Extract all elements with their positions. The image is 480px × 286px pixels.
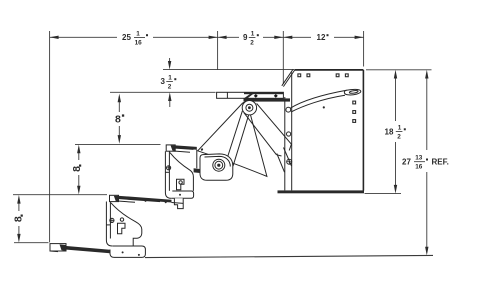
svg-text:25: 25 [122, 33, 131, 42]
bolt on housing flange upper [287, 132, 291, 136]
housing panel outline [278, 69, 365, 193]
svg-text:1: 1 [168, 74, 172, 81]
bracket3 S-curve [111, 203, 142, 246]
bracket2 S-curve [170, 153, 194, 191]
svg-text:8: 8 [115, 114, 121, 126]
right mid extension line (housing bottom) [365, 193, 402, 195]
text 8 #1 [115, 114, 124, 126]
dim 8 #2 stems [78, 151, 80, 160]
washer pivot [213, 159, 225, 171]
svg-text:1: 1 [398, 124, 402, 131]
arrow 25 left [50, 36, 59, 39]
dimension 12 line [283, 36, 311, 38]
housing left flange [285, 73, 292, 191]
small dot on housing [323, 106, 325, 108]
text 8 #2 (rotated) [71, 165, 83, 172]
svg-text:12: 12 [317, 33, 326, 42]
dimension 25 1/16 line [50, 36, 117, 38]
arrows at x=217.6 [209, 36, 218, 39]
svg-text:9: 9 [243, 33, 248, 42]
dim 18 1/2 line [395, 76, 397, 121]
dimension texts [13, 30, 449, 222]
boss plate on tread2 [200, 154, 233, 180]
tread 2 [166, 145, 203, 173]
extension line B (x=283.3) [282, 31, 284, 84]
scissor link at housing lower [277, 148, 292, 173]
svg-text:2: 2 [250, 39, 254, 46]
bolt on bracket2 [167, 166, 171, 170]
bracket step3->step4 [106, 202, 145, 258]
curved crank arm inside housing [286, 89, 361, 112]
tread3 right-end wrap [174, 198, 183, 208]
extension line left (front of bottom step) [49, 31, 51, 242]
tread 3 [110, 195, 184, 203]
right top extension line [366, 69, 432, 71]
scissor upper arm (to housing) [244, 103, 292, 156]
svg-text:REF.: REF. [432, 158, 449, 167]
bracket3 foot [110, 246, 145, 257]
dim 3 1/2 arrow stems [169, 58, 171, 63]
arrows 8 #2 [77, 145, 80, 154]
svg-text:8: 8 [71, 166, 83, 172]
dim 8 #3 stems [18, 201, 20, 211]
bolt on housing flange lower [287, 159, 292, 164]
text 12 [317, 33, 329, 42]
scissor lower arm (to washer pivot) [225, 111, 249, 166]
arrows 18 1/2 [394, 70, 397, 79]
dimension 9 1/2 line [218, 36, 239, 38]
clip on bracket2 [177, 179, 185, 190]
arrows at x=283.3 [274, 36, 283, 39]
clip on bracket3 [118, 223, 126, 234]
text 8 #3 (rotated) [13, 215, 25, 223]
svg-text:3: 3 [161, 77, 166, 86]
svg-text:8: 8 [13, 216, 25, 222]
dim 8 #1 stems [118, 100, 120, 112]
svg-text:16: 16 [135, 39, 143, 46]
bracket step2->step3 [165, 151, 193, 208]
arrowheads [17, 36, 428, 256]
text 27 13/16 REF. [402, 155, 449, 171]
svg-text:2: 2 [397, 134, 401, 141]
arrows 8 #1 [118, 94, 121, 103]
svg-text:27: 27 [402, 158, 411, 167]
housing chamfer corner [282, 69, 295, 86]
housing bottom flange [278, 190, 365, 193]
extension line C (x=363.6 housing right) [363, 31, 365, 67]
svg-text:2: 2 [168, 83, 172, 90]
dim 3 1/2 bottom line / tread1 extension (y=92.3) [110, 91, 216, 93]
scissor triangle plate [198, 102, 267, 176]
dim 27 13/16 line [426, 76, 428, 150]
tread2 extension line [75, 143, 161, 145]
svg-text:18: 18 [385, 127, 394, 136]
svg-text:1: 1 [136, 30, 140, 37]
tread4 extension line [14, 242, 49, 244]
extension line A (x=217.6 rear of treads) [217, 31, 219, 70]
svg-text:13: 13 [415, 155, 423, 162]
tread 4 (bottom step) [50, 244, 110, 254]
text 9 1/2 [243, 30, 259, 46]
text 18 1/2 [385, 124, 406, 140]
bolt on bracket3 [110, 218, 114, 222]
svg-text:1: 1 [251, 30, 255, 37]
arrow 12 right [355, 36, 364, 39]
text 3 1/2 [161, 74, 177, 90]
ground line [145, 255, 433, 257]
tread 1 (top fixed tread) [217, 92, 290, 102]
arrows 3 1/2 [168, 61, 171, 70]
text 25 1/16 [122, 30, 148, 46]
arrows 8 #3 [17, 195, 20, 204]
svg-text:16: 16 [415, 164, 423, 171]
bracket2 foot [171, 191, 193, 198]
housing top square holes [298, 74, 348, 77]
top pivot with arm head [242, 101, 256, 115]
housing right square holes [353, 101, 356, 122]
dot on boss [201, 148, 203, 150]
tread3 extension line [13, 194, 107, 196]
dim 3 1/2 top line (y=69.6) [163, 69, 295, 71]
arrows 27 13/16 [425, 70, 428, 79]
